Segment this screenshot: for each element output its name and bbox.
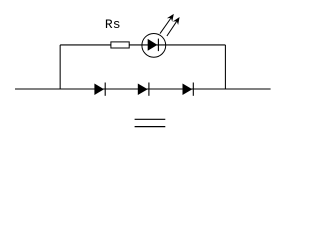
LED light-emission arrow 1 shaft bbox=[160, 18, 171, 34]
LED light-emission arrow 1 head bbox=[167, 14, 174, 22]
diode 2 (cathode bar) bbox=[148, 83, 150, 96]
diode 1 (cathode bar) bbox=[104, 83, 106, 96]
diode 3 (anode triangle) bbox=[183, 84, 193, 96]
LED (cathode bar) bbox=[157, 39, 159, 52]
svg-text:Rs: Rs bbox=[105, 17, 121, 32]
resistor Rs (body) bbox=[111, 42, 129, 48]
LED light-emission arrow 2 shaft bbox=[167, 21, 177, 36]
wire: bottom main horizontal rail bbox=[15, 88, 271, 90]
wire: left vertical branch bbox=[59, 45, 61, 89]
diode 3 (cathode bar) bbox=[192, 83, 194, 96]
wire: top branch horizontal bbox=[60, 44, 225, 46]
equivalence symbol: lower line bbox=[135, 126, 166, 128]
diode 1 (anode triangle) bbox=[94, 84, 104, 96]
LED (envelope circle) bbox=[142, 33, 166, 57]
diode 2 (anode triangle) bbox=[138, 84, 148, 96]
wire: right vertical branch bbox=[224, 45, 226, 89]
LED (anode triangle) bbox=[148, 39, 158, 51]
equivalence symbol: upper line bbox=[135, 118, 166, 120]
LED light-emission arrow 2 head bbox=[173, 17, 180, 25]
